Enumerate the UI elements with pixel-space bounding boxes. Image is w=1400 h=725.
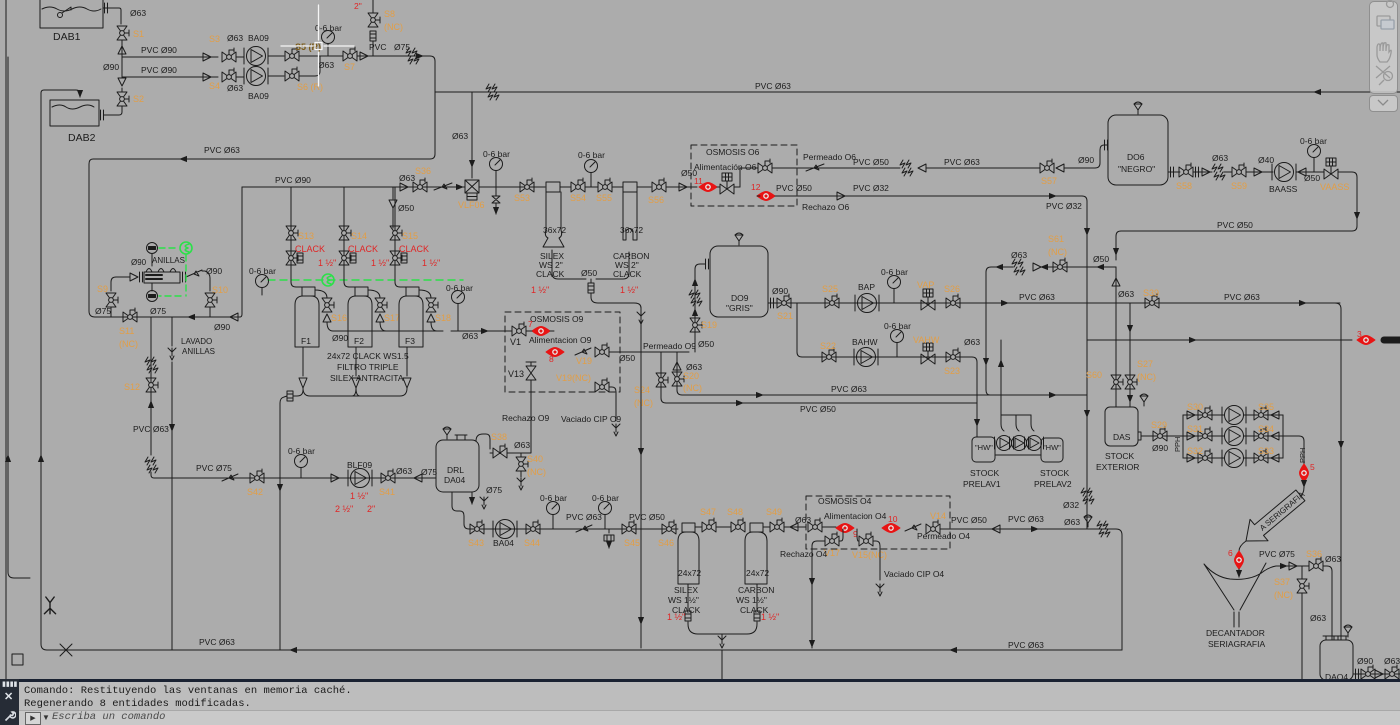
valve S3 — [222, 48, 236, 62]
coupling right — [754, 611, 760, 621]
wire — [716, 526, 731, 528]
valve S11 — [123, 308, 137, 322]
wire rechazo turns down — [1057, 196, 1087, 529]
check S18 — [427, 314, 435, 322]
valve after pump row2 — [285, 67, 299, 81]
svg-text:BAASS: BAASS — [1269, 184, 1298, 194]
valve S14 — [339, 226, 351, 240]
valve S17 branch — [368, 290, 380, 298]
svg-text:24x72 CLACK WS1.5: 24x72 CLACK WS1.5 — [327, 351, 409, 361]
svg-text:PVC Ø50: PVC Ø50 — [776, 183, 812, 193]
valve S21 — [777, 294, 791, 308]
svg-text:Ø75: Ø75 — [95, 306, 111, 316]
svg-text:S4: S4 — [209, 81, 220, 91]
valve S27 — [1125, 375, 1137, 389]
svg-text:Ø50: Ø50 — [1093, 254, 1109, 264]
svg-text:Vaciado CIP O9: Vaciado CIP O9 — [561, 414, 621, 424]
valve S9 — [106, 293, 118, 307]
svg-text:S42: S42 — [247, 487, 263, 497]
arrow right — [1279, 565, 1287, 567]
arrow right — [1030, 528, 1038, 530]
valve permeado O4 — [926, 520, 940, 534]
check valve feed — [130, 273, 138, 281]
svg-text:ANILLAS: ANILLAS — [152, 256, 185, 265]
svg-text:S39: S39 — [1143, 288, 1159, 298]
valve S40 — [516, 457, 528, 471]
wire S20 drop — [677, 352, 1087, 395]
svg-text:BAHW: BAHW — [852, 337, 878, 347]
tee down — [590, 279, 592, 283]
svg-text:36x72: 36x72 — [543, 225, 566, 235]
pump BAP — [855, 294, 879, 313]
svg-text:Permeado O6: Permeado O6 — [803, 152, 856, 162]
svg-text:0-6 bar: 0-6 bar — [578, 150, 605, 160]
svg-text:PVC Ø63: PVC Ø63 — [1008, 514, 1044, 524]
svg-text:DAB2: DAB2 — [68, 132, 96, 144]
pump BA09 row2 — [244, 67, 268, 86]
svg-text:1 ½": 1 ½" — [350, 491, 368, 501]
arrow down — [171, 424, 173, 431]
pipe break — [900, 160, 913, 176]
wire elbow down — [420, 55, 423, 57]
svg-text:PPH: PPH — [1298, 448, 1307, 463]
valve S24 — [656, 373, 668, 387]
wire drain to x280 — [280, 390, 303, 650]
vessel CARBON WS1.5 cap — [750, 523, 763, 532]
pipe PVC63 top long — [445, 91, 1400, 93]
valve S16 branch — [315, 290, 327, 298]
svg-text:S34: S34 — [1258, 424, 1274, 434]
vessel CARBON WS2 — [623, 192, 637, 240]
wire tee up S19 — [695, 264, 705, 352]
flow switch — [222, 474, 238, 481]
svg-text:S37: S37 — [1274, 577, 1290, 587]
wire — [236, 76, 284, 77]
drain Y — [612, 424, 620, 436]
svg-text:S26: S26 — [944, 284, 960, 294]
sheet frame left border — [5, 0, 7, 683]
vent DRL — [443, 427, 451, 439]
valve S30 — [1198, 406, 1212, 420]
wire S9 down — [110, 307, 112, 317]
check valve — [400, 183, 408, 191]
svg-text:PVC Ø90: PVC Ø90 — [141, 65, 177, 75]
svg-text:S1: S1 — [133, 29, 144, 39]
svg-text:S59: S59 — [1231, 181, 1247, 191]
wire row1 to S7 — [299, 55, 343, 57]
X junction mark — [60, 644, 72, 656]
svg-text:PVC: PVC — [369, 42, 386, 52]
svg-text:Ø63: Ø63 — [227, 33, 243, 43]
node S8 tee — [372, 41, 374, 56]
svg-text:Ø63: Ø63 — [452, 131, 468, 141]
check valve up — [1112, 278, 1120, 286]
valve S46 — [662, 520, 676, 534]
gauge 0-6 bar BAHW — [891, 330, 904, 351]
svg-text:PVC Ø63: PVC Ø63 — [566, 512, 602, 522]
arrow right — [1048, 195, 1056, 197]
svg-text:PVC Ø63: PVC Ø63 — [831, 384, 867, 394]
svg-text:PVC Ø50: PVC Ø50 — [800, 404, 836, 414]
svg-text:S30: S30 — [1187, 402, 1203, 412]
wire — [268, 55, 284, 57]
coupling S8 — [370, 31, 376, 41]
wire rechazo O6 — [757, 195, 1057, 197]
tank DAB2 — [50, 100, 99, 126]
wire down to S15b col — [392, 208, 394, 228]
wire — [666, 186, 697, 188]
svg-text:PVC Ø50: PVC Ø50 — [853, 157, 889, 167]
arrow down rechazo 2 — [811, 640, 813, 647]
valve S18 branch — [419, 290, 431, 298]
vessel SILEX WS2 — [543, 192, 564, 247]
valve S41 — [381, 469, 395, 483]
svg-text:S19: S19 — [701, 320, 717, 330]
wire DAS outlet — [1141, 435, 1183, 437]
arrow down x641 — [640, 448, 642, 455]
vent DAO4 — [1344, 625, 1352, 637]
svg-text:6: 6 — [1228, 548, 1233, 558]
red flow 12 — [757, 192, 775, 201]
svg-text:OSMOSIS O6: OSMOSIS O6 — [706, 147, 760, 157]
pipe break — [486, 84, 499, 100]
svg-text:S36: S36 — [415, 166, 431, 176]
vessel SILEX WS2 cap — [546, 182, 560, 192]
arrow up x1001 — [1000, 360, 1002, 367]
valve S37 — [1297, 579, 1309, 593]
svg-text:12: 12 — [751, 182, 761, 192]
vessel CARBON WS1.5 — [745, 532, 767, 584]
svg-text:S5 (R): S5 (R) — [295, 42, 321, 52]
pump P2 — [1222, 427, 1246, 446]
header right — [1282, 415, 1284, 458]
svg-text:36x72: 36x72 — [620, 225, 643, 235]
check valve left — [1298, 168, 1306, 176]
svg-text:"HW": "HW" — [1043, 443, 1061, 452]
drain Y left — [44, 597, 55, 614]
svg-text:S21: S21 — [777, 311, 793, 321]
wire S16 to header — [327, 322, 333, 331]
arrow down — [1115, 248, 1117, 255]
svg-text:Rechazo O4: Rechazo O4 — [780, 549, 828, 559]
drain Y O4 — [876, 584, 884, 596]
svg-text:0-6 bar: 0-6 bar — [483, 149, 510, 159]
check valve — [118, 46, 126, 54]
svg-text:PVC Ø32: PVC Ø32 — [853, 183, 889, 193]
vent DO6 — [1134, 102, 1142, 114]
wire to pump row1 — [236, 56, 244, 58]
node junction DAB — [121, 57, 123, 77]
tank DAO4 — [1320, 640, 1353, 680]
vent on line — [1084, 515, 1092, 527]
svg-text:Ø63: Ø63 — [1064, 517, 1080, 527]
wire riser to main — [242, 186, 402, 188]
svg-text:PPH: PPH — [1173, 437, 1182, 452]
wire to S57 — [926, 167, 1040, 169]
valve S43 — [470, 520, 484, 534]
svg-text:S31: S31 — [1187, 424, 1203, 434]
svg-text:Alimentación O6: Alimentación O6 — [694, 162, 757, 172]
svg-text:1 ½": 1 ½" — [318, 258, 336, 268]
svg-text:PVC Ø32: PVC Ø32 — [1046, 201, 1082, 211]
svg-text:(NC): (NC) — [1137, 372, 1156, 382]
pipe break — [1012, 259, 1025, 275]
valve S22 — [822, 348, 836, 362]
gauge 0-6 bar 2 — [599, 502, 612, 523]
wire — [560, 186, 571, 188]
svg-text:Ø90: Ø90 — [1152, 443, 1168, 453]
svg-text:Ø63: Ø63 — [795, 515, 811, 525]
red flow 11 — [699, 183, 717, 192]
svg-text:(NC): (NC) — [1048, 247, 1067, 257]
pump HW b — [1010, 436, 1029, 451]
arrow drain — [495, 208, 497, 214]
flow switch permeado — [806, 164, 824, 171]
gauge 0-6 bar — [585, 160, 598, 181]
pump BLF09 — [348, 469, 372, 488]
flange ANILLAS right — [183, 272, 186, 282]
svg-text:FILTRO TRIPLE: FILTRO TRIPLE — [337, 362, 399, 372]
pump BAASS — [1272, 163, 1296, 182]
valve S14b — [339, 251, 351, 265]
wire — [585, 186, 598, 188]
svg-text:2": 2" — [367, 504, 375, 514]
drain valve below — [492, 187, 500, 208]
svg-text:0-6 bar: 0-6 bar — [288, 446, 315, 456]
drain manifold — [303, 388, 407, 396]
valve S54 — [571, 178, 585, 192]
svg-text:PVC Ø63: PVC Ø63 — [133, 424, 169, 434]
svg-text:S25: S25 — [822, 284, 838, 294]
svg-text:Ø50: Ø50 — [398, 203, 414, 213]
stub V15 to line — [857, 529, 859, 541]
wire S12 col to S42 row — [151, 472, 160, 478]
pump BAHW — [854, 348, 878, 367]
wire — [1246, 171, 1273, 173]
wire BAP corner down — [1335, 303, 1341, 640]
node tee S40 — [520, 453, 522, 457]
stub rechazo valve to line — [839, 529, 843, 541]
valve S10 — [205, 293, 217, 307]
svg-text:Ø63: Ø63 — [1118, 289, 1134, 299]
decanter outlet — [1234, 612, 1239, 627]
cap DAO4 — [1323, 636, 1347, 640]
svg-text:S22: S22 — [820, 341, 836, 351]
hmm removed — [489, 449, 491, 453]
vessel SILEX WS1.5 — [678, 532, 699, 584]
wire to banner — [1303, 482, 1305, 487]
crosshair cursor — [281, 5, 354, 86]
svg-text:0-6 bar: 0-6 bar — [881, 267, 908, 277]
svg-text:S54: S54 — [570, 193, 586, 203]
gauge 0-6 bar BAASS — [1308, 145, 1321, 166]
wire out — [940, 528, 950, 530]
svg-text:Ø63: Ø63 — [1384, 656, 1400, 666]
wire pumps base — [995, 454, 1041, 456]
wire S42 row — [160, 477, 436, 479]
coupling — [297, 253, 303, 263]
svg-text:Ø90: Ø90 — [1357, 656, 1373, 666]
svg-text:V15(NC): V15(NC) — [852, 550, 887, 560]
svg-text:S38: S38 — [491, 432, 507, 442]
svg-text:SILEX: SILEX — [674, 585, 698, 595]
svg-text:PVC Ø63: PVC Ø63 — [755, 81, 791, 91]
flow switch right — [186, 270, 202, 277]
svg-text:F2: F2 — [354, 336, 364, 346]
valve S26 — [946, 294, 960, 308]
svg-text:PVC Ø63: PVC Ø63 — [1008, 640, 1044, 650]
valve S15 — [390, 226, 402, 240]
svg-text:S16: S16 — [331, 313, 347, 323]
valve S15b — [390, 251, 402, 265]
pipe break — [145, 357, 158, 373]
pipe break — [1097, 521, 1110, 537]
check — [1187, 432, 1195, 440]
pump P1 — [1222, 406, 1246, 425]
svg-text:BAP: BAP — [858, 282, 875, 292]
svg-text:(NC): (NC) — [1274, 590, 1293, 600]
check valve — [331, 474, 339, 482]
svg-text:S43: S43 — [468, 538, 484, 548]
wire — [612, 186, 651, 188]
svg-text:Ø50: Ø50 — [619, 353, 635, 363]
coupling left — [685, 611, 691, 621]
svg-text:S17: S17 — [384, 313, 400, 323]
valve S25 — [825, 294, 839, 308]
svg-text:STOCK: STOCK — [1040, 468, 1069, 478]
valve S47 — [702, 518, 716, 532]
wire feed jog — [497, 330, 554, 332]
svg-text:Ø50: Ø50 — [698, 339, 714, 349]
node top line tee — [435, 91, 445, 93]
arrow down rechazo — [811, 578, 813, 585]
wire S57 to DO6 — [1064, 145, 1108, 168]
flow switch — [575, 348, 591, 355]
arrow on return line — [180, 158, 186, 160]
tank HW1 — [972, 437, 995, 462]
tank HW2 — [1041, 438, 1063, 462]
svg-text:2": 2" — [354, 1, 362, 11]
tank DAB1 — [40, 0, 103, 28]
svg-text:S20: S20 — [683, 371, 699, 381]
drain Y on x641 — [637, 312, 645, 324]
arrow left bottom pipe — [290, 649, 298, 651]
svg-text:V13: V13 — [508, 369, 524, 379]
arrow left S61 row — [996, 266, 1003, 268]
valve S58 — [1179, 163, 1193, 177]
bottom long pipe PVC63 — [47, 649, 1122, 651]
wire BA04 row — [469, 528, 678, 530]
svg-text:(NC): (NC) — [384, 22, 403, 32]
pump HW c — [1025, 436, 1044, 451]
svg-text:24x72: 24x72 — [678, 568, 701, 578]
svg-text:S2: S2 — [133, 94, 144, 104]
svg-text:0-6 bar: 0-6 bar — [592, 493, 619, 503]
red flow 10 — [882, 524, 900, 533]
wire decanter overflow row — [1264, 566, 1302, 571]
svg-text:Ø63: Ø63 — [227, 83, 243, 93]
check valve left — [992, 525, 1000, 533]
filter drains — [303, 347, 407, 376]
pump P3 — [1222, 449, 1246, 468]
check valve row2 — [200, 76, 218, 78]
decanter cone — [1204, 563, 1266, 610]
svg-text:Ø63: Ø63 — [1011, 250, 1027, 260]
svg-text:BA09: BA09 — [248, 33, 269, 43]
svg-text:PVC Ø50: PVC Ø50 — [629, 512, 665, 522]
flange DAB2 inlet — [101, 110, 104, 120]
svg-text:DO6: DO6 — [1127, 152, 1145, 162]
wire — [695, 526, 702, 528]
svg-text:Alimentacion O9: Alimentacion O9 — [529, 335, 592, 345]
svg-text:S33: S33 — [1258, 446, 1274, 456]
svg-text:Ø75: Ø75 — [421, 467, 437, 477]
svg-text:Ø50: Ø50 — [1304, 173, 1320, 183]
box OSMOSIS O6 — [691, 145, 797, 206]
svg-text:Ø90: Ø90 — [131, 258, 147, 267]
valve S36b — [1309, 557, 1323, 571]
vessel SILEX WS1.5 cap — [682, 523, 695, 532]
arrow left O50 stub — [1097, 266, 1104, 268]
arrow up x41 — [40, 455, 42, 462]
svg-text:1 ½": 1 ½" — [620, 285, 638, 295]
svg-text:PVC Ø50: PVC Ø50 — [951, 515, 987, 525]
column S13 — [290, 187, 292, 268]
tank DAS — [1105, 407, 1138, 446]
wire V13 rechazo down — [530, 380, 532, 449]
small square bottom-left — [12, 654, 23, 665]
coupling — [401, 253, 407, 263]
svg-text:V14: V14 — [930, 511, 946, 521]
wire S38 to rechazo col — [490, 449, 531, 453]
check — [1187, 454, 1195, 462]
svg-text:S13: S13 — [298, 231, 314, 241]
check — [1375, 670, 1383, 678]
svg-text:(NC): (NC) — [527, 467, 546, 477]
svg-text:S58: S58 — [1176, 181, 1192, 191]
svg-text:PRELAV1: PRELAV1 — [963, 479, 1001, 489]
svg-text:PVC Ø90: PVC Ø90 — [141, 45, 177, 55]
svg-text:S15: S15 — [402, 231, 418, 241]
svg-text:Permeado O4: Permeado O4 — [917, 531, 970, 541]
valve S32 — [1198, 449, 1212, 463]
svg-text:1 ½": 1 ½" — [761, 612, 779, 622]
big vertical x641 — [640, 308, 642, 648]
valve S44 — [526, 520, 540, 534]
svg-text:(NC): (NC) — [683, 383, 702, 393]
svg-text:1 ½": 1 ½" — [667, 612, 685, 622]
check valve — [414, 474, 422, 482]
valve S4 — [222, 68, 236, 82]
svg-text:10: 10 — [888, 514, 898, 524]
svg-text:S18: S18 — [435, 313, 451, 323]
wire into decanter — [1238, 569, 1240, 577]
svg-text:PVC Ø63: PVC Ø63 — [199, 637, 235, 647]
pipe break — [406, 48, 419, 64]
wire to S10 — [202, 271, 210, 291]
valve vaciado cip — [595, 378, 609, 392]
svg-text:"HW": "HW" — [975, 443, 993, 452]
check valve — [1033, 263, 1041, 271]
svg-text:Ø90: Ø90 — [214, 322, 230, 332]
valve S19 — [690, 318, 702, 332]
valve V1 — [512, 322, 526, 336]
arrow right BAP — [1000, 302, 1008, 304]
pump HW a — [995, 436, 1014, 451]
flange DAB1 — [105, 3, 108, 13]
wire WS2 bottoms manifold — [552, 250, 629, 279]
svg-text:BLF09: BLF09 — [347, 460, 372, 470]
